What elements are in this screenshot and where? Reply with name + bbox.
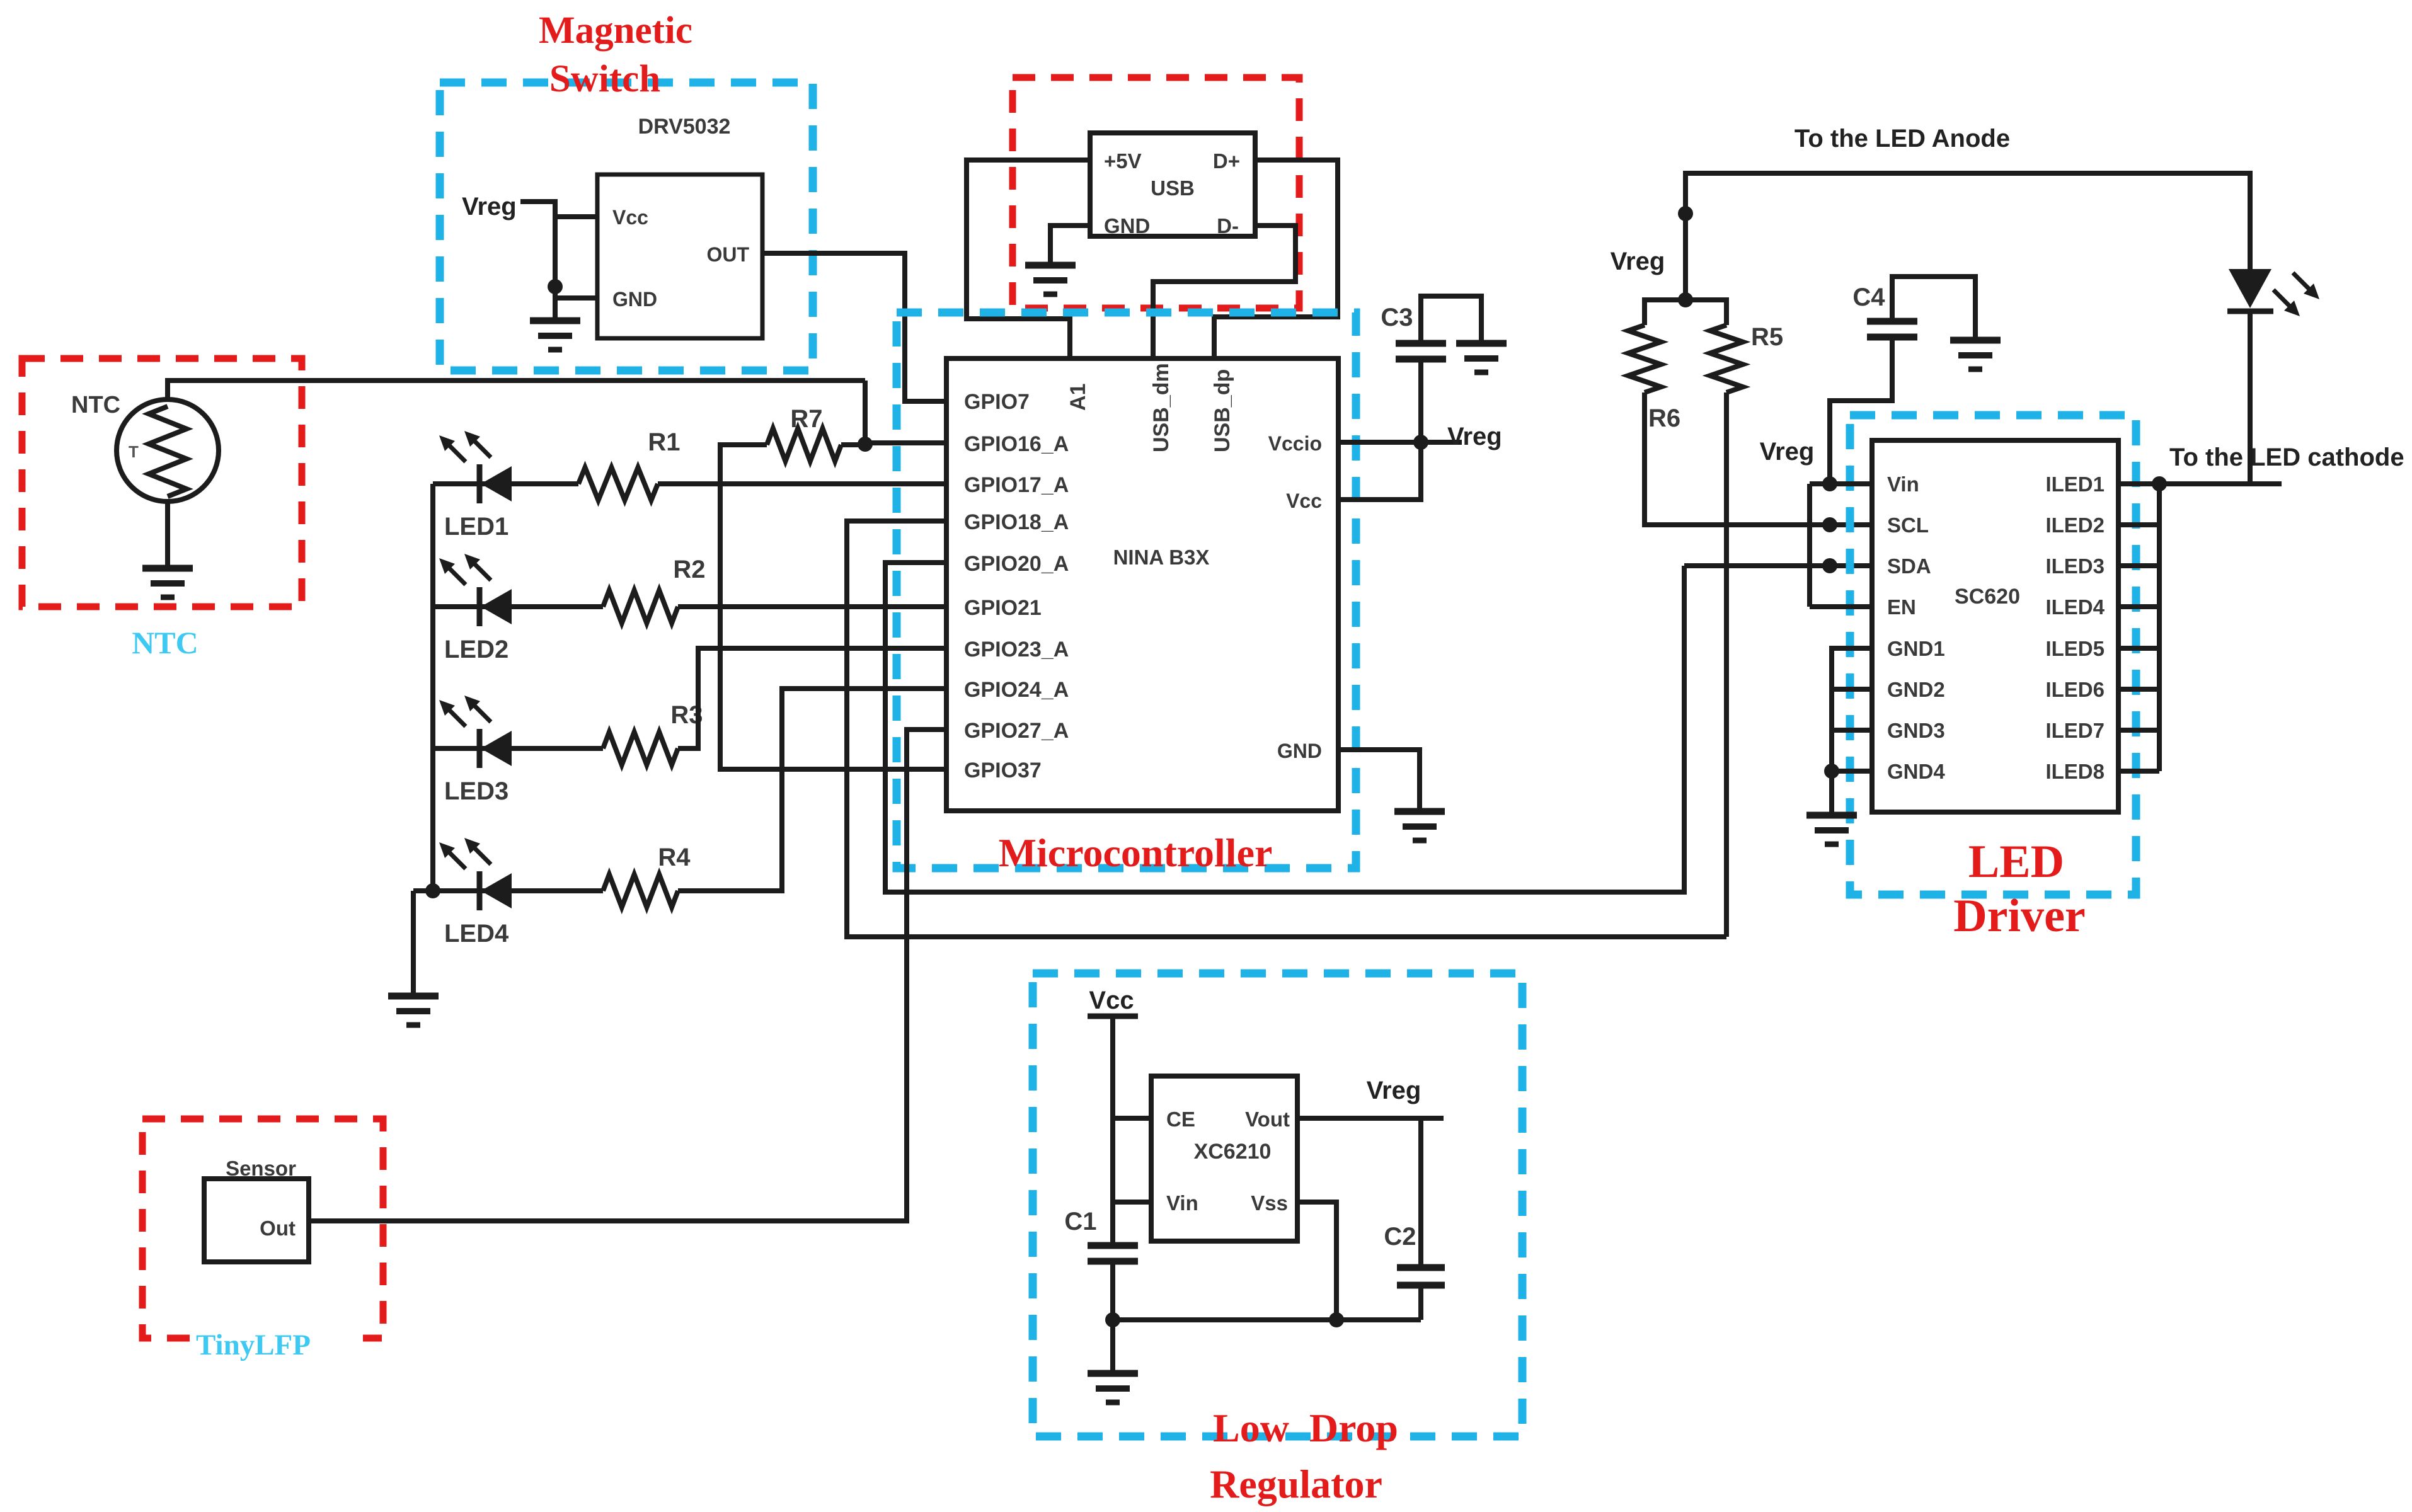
svg-text:LED3: LED3 — [444, 777, 508, 805]
wire LED rail — [430, 484, 435, 891]
wire ILED7 stub — [2118, 728, 2159, 733]
resistor R2 — [603, 590, 678, 623]
svg-text:LED4: LED4 — [444, 920, 509, 948]
svg-text:ILED3: ILED3 — [2045, 554, 2105, 578]
wire GPIO18_A to SCL net — [847, 521, 1726, 937]
LED3 cathode bar — [477, 729, 483, 768]
cyan dashed box LED Driver — [1850, 415, 2136, 895]
wire LED cathode drop — [2248, 311, 2253, 484]
capacitor C3 — [1396, 340, 1446, 347]
cyan dashed box Microcontroller — [897, 312, 1356, 868]
resistor R5 — [1710, 325, 1743, 392]
wire D+ to USB_dp — [1214, 160, 1338, 358]
wire R7 right to node — [841, 442, 865, 447]
svg-text:Vcc: Vcc — [612, 206, 648, 229]
wire GND MCU — [1338, 750, 1420, 811]
svg-text:Vcc: Vcc — [1089, 987, 1134, 1014]
svg-text:GND4: GND4 — [1887, 760, 1945, 783]
svg-text:NTC: NTC — [132, 625, 198, 660]
wire gnd stem regulator — [1110, 1320, 1115, 1373]
wire LED anode line — [1686, 173, 2250, 300]
cyan dashed box Magnetic Switch — [440, 83, 813, 370]
junction dot Vin — [1822, 476, 1837, 491]
wire Vin stub SC620 — [1810, 481, 1872, 486]
wire R5 to SCL-net riser — [1724, 392, 1729, 937]
svg-text:ILED8: ILED8 — [2045, 760, 2105, 783]
svg-text:C4: C4 — [1852, 283, 1885, 311]
wire ILED bus — [2157, 484, 2162, 771]
wire Vout to Vreg — [1297, 1116, 1444, 1121]
wire Vreg to Vcc and GND — [520, 202, 555, 321]
svg-text:R6: R6 — [1648, 404, 1680, 432]
wire R6 to SCL — [1645, 392, 1872, 525]
capacitor C4 — [1867, 318, 1917, 325]
LED4 arrows — [439, 842, 466, 869]
wire ILED5 stub — [2118, 646, 2159, 651]
thermistor NTC zigzag — [149, 406, 187, 496]
junction dot SCL — [1822, 517, 1837, 532]
wire ILED8 stub — [2118, 769, 2159, 774]
svg-text:Switch: Switch — [549, 58, 660, 100]
label TinyLFP — [194, 1324, 363, 1360]
wire LED1 anode-cathode row — [433, 481, 578, 486]
resistor R6 — [1628, 325, 1661, 392]
svg-text:Vreg: Vreg — [1447, 423, 1502, 450]
wire R3 to GPIO23_A — [678, 648, 946, 748]
svg-text:C1: C1 — [1064, 1208, 1096, 1235]
svg-text:Magnetic: Magnetic — [539, 9, 692, 52]
svg-text:GPIO17_A: GPIO17_A — [964, 473, 1069, 497]
svg-text:OUT: OUT — [706, 243, 749, 266]
junction dot C1 gnd — [1105, 1312, 1120, 1327]
svg-text:D-: D- — [1217, 214, 1239, 238]
connector USB box — [1090, 133, 1255, 236]
svg-text:A1: A1 — [1066, 384, 1090, 411]
LED1 triangle — [481, 466, 512, 501]
sensor box — [204, 1179, 309, 1262]
ground MCU — [1394, 811, 1445, 840]
LED4 cathode bar — [477, 871, 483, 910]
resistor R7 — [767, 428, 841, 461]
wire Vcc riser — [1338, 442, 1421, 500]
wire GPIO20_A to SDA net — [885, 563, 1684, 892]
LED2 triangle — [481, 589, 512, 624]
wire NTC node drop — [863, 381, 868, 445]
svg-text:ILED7: ILED7 — [2045, 719, 2105, 742]
LED D1 triangle — [2229, 269, 2271, 308]
svg-text:Vccio: Vccio — [1268, 432, 1322, 455]
svg-text:Vreg: Vreg — [1611, 248, 1665, 275]
wire node to GPIO16_A — [865, 440, 946, 445]
wire SDA into pin — [1684, 563, 1872, 568]
wire ILED3 stub — [2118, 563, 2159, 568]
svg-text:NINA B3X: NINA B3X — [1113, 546, 1210, 569]
wire LED gnd drop — [411, 891, 416, 996]
wire CE stub — [1113, 1116, 1151, 1121]
chip DRV5032 box — [597, 175, 762, 338]
svg-text:DRV5032: DRV5032 — [638, 115, 731, 139]
wire ILED6 stub — [2118, 687, 2159, 692]
svg-text:GND: GND — [1104, 214, 1150, 238]
thermistor NTC circle — [117, 399, 219, 501]
svg-text:Microcontroller: Microcontroller — [999, 830, 1273, 875]
junction dot SDA — [1822, 558, 1837, 573]
wire regulator bottom rail — [1113, 1317, 1421, 1322]
svg-text:LED: LED — [1968, 836, 2064, 888]
ground NTC — [142, 568, 193, 597]
wire R2 to GPIO21 — [678, 604, 946, 609]
svg-text:To the LED Anode: To the LED Anode — [1795, 125, 2010, 152]
LED3 arrows — [439, 700, 466, 726]
svg-text:Regulator: Regulator — [1210, 1462, 1382, 1506]
ground C3 — [1456, 343, 1507, 372]
wire ILED2 stub — [2118, 522, 2159, 527]
svg-text:Vreg: Vreg — [1367, 1077, 1421, 1104]
red dashed box TinyLFP — [142, 1119, 383, 1338]
wire C4 top to gnd — [1892, 277, 1975, 340]
svg-text:GND2: GND2 — [1887, 678, 1945, 701]
LED2 arrows — [439, 558, 466, 585]
svg-text:SC620: SC620 — [1955, 585, 2020, 609]
red dashed box USB — [1013, 77, 1299, 308]
wire D- to USB_dm — [1153, 226, 1295, 358]
svg-text:T: T — [129, 442, 139, 461]
wire LED4 anode-cathode row — [413, 888, 603, 893]
wire +5V to A1 — [967, 160, 1090, 358]
chip NINA B3X box — [946, 358, 1338, 811]
junction dot GND4 — [1824, 764, 1839, 779]
svg-text:+5V: +5V — [1104, 149, 1142, 173]
wire ILED1 row — [2118, 481, 2282, 486]
svg-text:GPIO24_A: GPIO24_A — [964, 678, 1069, 702]
wire GND2 stub — [1832, 687, 1872, 692]
svg-text:GND1: GND1 — [1887, 637, 1945, 660]
svg-text:GPIO21: GPIO21 — [964, 596, 1042, 620]
resistor R4 — [603, 874, 678, 907]
svg-text:TinyLFP: TinyLFP — [196, 1329, 311, 1361]
wire Vccio to Vreg — [1338, 440, 1462, 445]
svg-text:XC6210: XC6210 — [1194, 1140, 1272, 1164]
svg-text:Vin: Vin — [1887, 472, 1919, 496]
svg-text:ILED5: ILED5 — [2045, 637, 2105, 660]
svg-text:Driver: Driver — [1953, 890, 2086, 942]
svg-text:ILED2: ILED2 — [2045, 513, 2105, 537]
wire Vin-EN bus — [1807, 484, 1812, 607]
wire R5R6 fork — [1645, 300, 1726, 325]
svg-text:ILED6: ILED6 — [2045, 678, 2105, 701]
wire R7 left to GPIO37 — [720, 445, 946, 769]
svg-text:GPIO7: GPIO7 — [964, 390, 1030, 414]
LED1 cathode bar — [477, 464, 483, 503]
wire ILED4 stub — [2118, 604, 2159, 609]
wire OUT to GPIO7 — [762, 253, 946, 401]
svg-text:R4: R4 — [658, 844, 691, 871]
supply bar Vcc — [1088, 1014, 1138, 1019]
svg-text:SDA: SDA — [1887, 554, 1931, 578]
ground USB — [1025, 265, 1076, 294]
wire GPIO27_A to sensor — [309, 730, 946, 1221]
svg-text:GND3: GND3 — [1887, 719, 1945, 742]
wire LED3 anode-cathode row — [433, 746, 603, 751]
LED2 cathode bar — [477, 587, 483, 626]
capacitor C1 — [1088, 1242, 1138, 1249]
svg-text:Low Drop: Low Drop — [1213, 1406, 1398, 1450]
svg-text:GPIO23_A: GPIO23_A — [964, 638, 1069, 661]
svg-text:R1: R1 — [648, 428, 680, 456]
svg-text:Vss: Vss — [1251, 1191, 1288, 1215]
wire Vreg drop to C2 — [1418, 1118, 1423, 1268]
chip SC620 box — [1872, 440, 2118, 812]
resistor R1 — [578, 467, 658, 500]
wire LED2 anode-cathode row — [433, 604, 603, 609]
svg-text:R2: R2 — [673, 556, 705, 583]
junction dot R5R6 fork — [1678, 292, 1693, 307]
svg-text:ILED1: ILED1 — [2045, 472, 2105, 496]
svg-text:Vreg: Vreg — [462, 193, 517, 220]
wire GND stub — [555, 295, 597, 301]
svg-text:LED2: LED2 — [444, 636, 508, 663]
wire GND3 stub — [1832, 728, 1872, 733]
LED1 arrows — [439, 435, 466, 462]
svg-text:SCL: SCL — [1887, 513, 1929, 537]
svg-text:GPIO20_A: GPIO20_A — [964, 552, 1069, 576]
ground C4 — [1950, 340, 2001, 369]
svg-text:GND: GND — [612, 288, 657, 311]
wire Vcc stub — [555, 214, 597, 219]
wire C4 bottom to Vin — [1830, 337, 1892, 483]
ground LED rail — [388, 996, 439, 1025]
ground regulator — [1088, 1373, 1138, 1402]
svg-text:CE: CE — [1166, 1108, 1195, 1131]
LED3 triangle — [481, 731, 512, 766]
svg-text:R5: R5 — [1751, 323, 1783, 351]
svg-text:USB_dp: USB_dp — [1210, 369, 1234, 452]
junction dot Vreg tick — [1678, 206, 1693, 221]
wire C1 bottom — [1110, 1261, 1115, 1320]
svg-text:NTC: NTC — [71, 392, 120, 418]
LED D1 arrows — [2273, 290, 2300, 316]
svg-text:D+: D+ — [1213, 149, 1240, 173]
svg-text:ILED4: ILED4 — [2045, 595, 2105, 619]
svg-text:GPIO16_A: GPIO16_A — [964, 432, 1069, 456]
junction dot Vss — [1329, 1312, 1344, 1327]
wire EN stub — [1810, 604, 1872, 609]
svg-text:To the LED cathode: To the LED cathode — [2169, 444, 2404, 471]
resistor R3 — [603, 732, 678, 765]
svg-text:Vreg: Vreg — [1760, 438, 1815, 466]
svg-text:GPIO18_A: GPIO18_A — [964, 510, 1069, 534]
svg-text:LED1: LED1 — [444, 513, 508, 541]
red dashed box NTC sensor — [22, 358, 302, 607]
wire R4 to GPIO24_A — [678, 689, 946, 891]
ground DRV5032 — [530, 321, 580, 350]
capacitor C2 — [1397, 1264, 1445, 1271]
ground SC620 — [1806, 815, 1857, 844]
chip XC6210 box — [1151, 1076, 1297, 1241]
wire Vin stub — [1113, 1200, 1151, 1205]
svg-text:EN: EN — [1887, 595, 1916, 619]
junction dot GPIO16 node — [858, 437, 873, 452]
svg-text:Vcc: Vcc — [1286, 490, 1322, 512]
svg-text:USB_dm: USB_dm — [1149, 363, 1173, 452]
wire NTC bottom — [165, 501, 170, 568]
wire Vss drop — [1297, 1202, 1336, 1320]
svg-text:Vout: Vout — [1245, 1108, 1290, 1131]
wire R1 to GPIO17_A — [658, 481, 946, 486]
svg-text:R7: R7 — [790, 405, 822, 433]
wire C2 bottom — [1418, 1285, 1423, 1320]
LED D1 cathode bar — [2227, 309, 2273, 314]
junction dot magnetic gnd — [548, 279, 563, 294]
svg-text:GPIO27_A: GPIO27_A — [964, 719, 1069, 743]
svg-text:GPIO37: GPIO37 — [964, 759, 1042, 782]
wire NTC top — [168, 381, 865, 399]
wire Vcc rail — [1110, 1016, 1115, 1246]
junction dot ILED1 — [2152, 476, 2167, 491]
junction dot LED rail gnd — [425, 883, 440, 898]
junction dot Vccio — [1413, 435, 1428, 450]
wire GND stem SC620 — [1829, 771, 1834, 815]
cyan dashed box Low Drop Regulator — [1033, 973, 1522, 1436]
wire GND USB — [1050, 226, 1090, 265]
svg-text:GND: GND — [1277, 740, 1322, 762]
svg-text:Out: Out — [260, 1217, 296, 1240]
svg-text:C2: C2 — [1384, 1223, 1416, 1251]
LED4 triangle — [481, 873, 512, 908]
wire GND bus SC620 — [1832, 648, 1872, 771]
svg-text:USB: USB — [1151, 176, 1195, 200]
wire C3 bottom — [1418, 359, 1423, 442]
svg-text:C3: C3 — [1381, 304, 1413, 331]
svg-text:Vin: Vin — [1166, 1191, 1198, 1215]
wire C3 top to gnd — [1421, 296, 1481, 343]
